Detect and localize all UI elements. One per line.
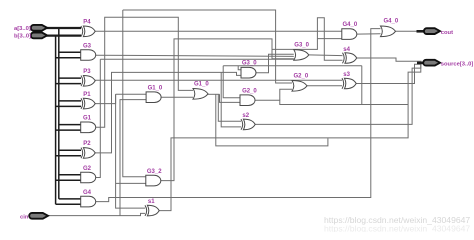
svg-text:G3: G3 [83, 43, 92, 49]
wire G1 net: G1 output riser x104.7, rail y17.2, down x178.3 to G1_0 OR top input [96, 17, 193, 127]
AND gate G3 [81, 43, 96, 60]
svg-text:P4: P4 [83, 20, 91, 26]
svg-text:G4_0: G4_0 [384, 18, 399, 24]
input connector a[3..0] [14, 25, 47, 32]
wire P3 net: P3 output to s3 top input [95, 79, 342, 81]
wire s1 output to source bus junction [159, 63, 421, 211]
wire P1 net: P1 output riser x115.6; branches to G1_0 AND top input, G3_2 bottom input, s1 top input [95, 94, 147, 208]
svg-text:G2_0: G2_0 [242, 89, 257, 95]
svg-text:P1: P1 [83, 92, 91, 98]
svg-text:cout: cout [441, 30, 453, 36]
wire G3_0 AND output via x268.5 up to G3_0 OR input [256, 54, 294, 72]
OR gate G1_0 OR [193, 81, 209, 99]
AND gate G4 [81, 190, 96, 207]
wire s4 output to source bus junction [357, 58, 422, 61]
OR gate G3_0 OR [294, 42, 310, 60]
svg-text:G3_0: G3_0 [294, 42, 309, 48]
input connector b[3..0] [14, 33, 47, 40]
wire P2 net: P2 output riser x111.5 to rail y72.4, jog to G3_0 AND bottom input; branch x222.1 down to s2 bottom input [95, 72, 241, 152]
AND gate G3_0 AND [241, 60, 257, 78]
svg-text:s2: s2 [242, 113, 249, 119]
output connector source[3..0] [423, 60, 473, 68]
svg-text:G2: G2 [83, 166, 92, 172]
svg-text:s3: s3 [343, 72, 350, 78]
wire G1_0 OR output: branches to G2_0 AND bottom input, s2 top input, and x215.8 drop with U-turn rail y145.9 [208, 94, 328, 146]
AND gate G2 [81, 166, 96, 183]
svg-text:G2_0: G2_0 [294, 73, 309, 79]
wire cin net: cin connector to s1 bottom input; riser x120 to G1_0 AND bottom input [48, 100, 146, 216]
AND gate G1_0 AND [146, 85, 163, 102]
wire P4 net: P4 output to G4_0 AND top input [95, 30, 342, 32]
bus stub to source connector [417, 62, 424, 65]
svg-text:b[3..0]: b[3..0] [14, 34, 31, 40]
svg-text:G4_0: G4_0 [343, 22, 358, 28]
svg-text:G1_0: G1_0 [194, 81, 209, 87]
svg-text:G1: G1 [83, 116, 92, 122]
wire G3 net: G3 output to G3_0 OR input [96, 55, 294, 56]
wire G4_0 AND output to G4_0 OR bottom input [357, 33, 381, 35]
XOR gate P4 [81, 20, 95, 37]
bus wire a[3..0]: from connector, vertical bus x58.8, taps to upper gate inputs [47, 28, 82, 199]
AND gate G3_2 AND [146, 169, 162, 186]
svg-text:cin: cin [20, 214, 29, 220]
svg-text:P3: P3 [83, 69, 91, 75]
wire G2_0 AND output: up to G2_0 OR bottom input; loop y108.6 right to x361.8 up to rail y65.7 left to jog into G3_0 AND top input; branch x223.5 down to G2_0 AND top input [223, 66, 408, 105]
AND gate G2_0 AND [240, 89, 257, 106]
OR gate G4_0 OR [381, 18, 399, 36]
svg-text:G4: G4 [83, 190, 92, 196]
XOR gate P2 [81, 141, 95, 158]
svg-text:s4: s4 [343, 47, 350, 53]
XOR gate P1 [81, 92, 95, 109]
wire G3_0 OR output to s4 top input [309, 54, 343, 57]
wire G4_0 OR output to cout connector [396, 30, 420, 32]
bus wire b[3..0]: from connector, vertical bus x55.6, taps to lower gate inputs [47, 36, 82, 205]
XOR gate P3 [81, 69, 95, 86]
OR gate G2_0 OR [292, 73, 309, 91]
wire G1_0 AND output to G1_0 OR bottom input [161, 96, 193, 98]
svg-text:G3_2: G3_2 [147, 169, 162, 175]
wire G2_0 OR output to s3 bottom input [307, 85, 342, 87]
svg-text:a[3..0]: a[3..0] [14, 26, 31, 32]
wire G4 net: G4 output, long run y197.5, riser x370.8 to G4_0 OR top input [96, 29, 381, 202]
wire G2 net: G2 output riser x100.3, rail y59.2 to G3_0 OR; top rail y10 over to x275.6 down to G2_0 OR top input; branch x122.8 down to G3_2 top input [96, 10, 294, 178]
output connector cout [424, 28, 453, 36]
AND gate G4_0 AND [342, 22, 358, 40]
wire s2 output to source bus junction [255, 63, 421, 125]
XOR gate s1 XOR [145, 199, 159, 216]
svg-text:https://blog.csdn.net/weixin_4: https://blog.csdn.net/weixin_43049647 [324, 224, 470, 233]
svg-text:s1: s1 [148, 199, 155, 205]
svg-text:G1_0: G1_0 [148, 85, 163, 91]
wire s3 output to source bus junction [356, 63, 421, 84]
watermark text [324, 215, 470, 234]
wire G3_2 net: G3_2 output riser x174, rail y38.9, down x272 to G3_0 OR input; branch y49.4 to staple x317.4/x324.3 feeding s4 bottom input; tap to G4_0 AND bottom input [161, 18, 343, 181]
bus stub to cout connector [417, 30, 425, 33]
input connector cin [20, 213, 48, 220]
XOR gate s4 XOR [343, 47, 357, 63]
svg-text:P2: P2 [83, 141, 91, 147]
AND gate G1 [81, 116, 96, 133]
svg-text:G3_0: G3_0 [242, 60, 257, 66]
XOR gate s2 XOR [241, 113, 255, 130]
svg-text:source[3..0]: source[3..0] [441, 62, 474, 68]
XOR gate s3 XOR [342, 72, 356, 89]
